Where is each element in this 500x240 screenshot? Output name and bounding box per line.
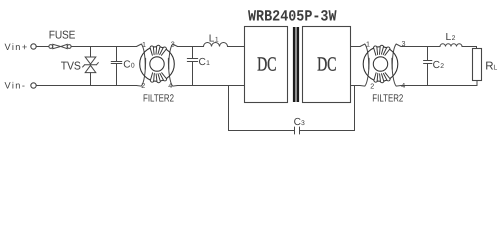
svg-text:FILTER2: FILTER2	[372, 94, 403, 105]
svg-text:1: 1	[206, 60, 210, 67]
inductor L1 label	[209, 33, 219, 44]
inductor L1	[204, 43, 228, 47]
wire lead pin3	[392, 44, 401, 69]
svg-text:3: 3	[171, 40, 175, 49]
svg-text:1: 1	[142, 40, 146, 49]
svg-text:DC: DC	[257, 54, 276, 76]
svg-text:Vin-: Vin-	[5, 81, 27, 91]
wire junction down to C3 (right)	[354, 86, 356, 131]
resistor RL label	[485, 61, 497, 73]
wire DC box output bottom to filter2	[351, 85, 361, 87]
svg-text:DC: DC	[317, 54, 336, 76]
svg-text:WRB2405P-3W: WRB2405P-3W	[248, 7, 337, 25]
resistor RL	[473, 49, 482, 81]
module U1 output block	[303, 27, 351, 103]
svg-text:1: 1	[366, 40, 370, 49]
svg-text:C: C	[294, 117, 301, 128]
svg-text:2: 2	[440, 63, 444, 70]
capacitor C1 label	[199, 57, 211, 68]
capacitor C3	[229, 127, 355, 134]
winding turns	[150, 45, 167, 83]
TVS diode D1	[83, 47, 99, 86]
svg-text:3: 3	[301, 120, 305, 127]
transformer T1 core bars	[293, 27, 296, 102]
winding turns	[374, 45, 391, 83]
wire filter2 pin4 to RL bottom	[401, 85, 477, 87]
svg-text:R: R	[485, 61, 493, 73]
wire lead pin1	[360, 44, 369, 69]
wire lead pin1	[137, 44, 146, 69]
filter2 pin labels	[366, 39, 406, 91]
svg-text:TVS: TVS	[61, 61, 81, 73]
filter1 pin labels	[141, 40, 175, 91]
capacitor C2	[424, 47, 432, 86]
capacitor C2 label	[433, 60, 445, 71]
svg-text:4: 4	[168, 81, 172, 90]
wire L1 to DC box	[228, 46, 245, 48]
wire lead pin2	[360, 58, 369, 86]
node Vin+ terminal	[31, 44, 36, 49]
svg-text:2: 2	[452, 35, 456, 42]
wire lead pin4	[392, 58, 401, 86]
wire DC box output top to filter2	[351, 46, 361, 48]
filter FILTER2 (output common-mode choke)	[360, 44, 401, 86]
capacitor C3 label	[294, 117, 305, 128]
wire L2 to RL	[462, 47, 477, 49]
svg-text:Vin+: Vin+	[5, 42, 29, 52]
wire fuse to filter1 (top rail)	[71, 46, 136, 48]
module U1 input block	[245, 27, 288, 103]
fuse F symbol	[49, 44, 71, 48]
wire filter1 pin4 to DC box (bottom)	[178, 85, 245, 87]
svg-text:L: L	[493, 65, 497, 72]
inductor L2	[440, 44, 462, 47]
wire Vin- to filter1 (bottom rail)	[36, 85, 136, 87]
svg-text:C: C	[123, 60, 130, 71]
node Vin- terminal	[31, 83, 36, 88]
toroid core	[363, 47, 398, 82]
filter FILTER2 (input common-mode choke)	[137, 44, 178, 86]
capacitor C0 label	[123, 60, 135, 71]
svg-text:0: 0	[131, 63, 135, 70]
wire filter2 pin3 to C2/L2	[401, 46, 440, 48]
svg-text:FILTER2: FILTER2	[143, 94, 174, 105]
wire RL bottom to rail	[476, 81, 478, 86]
svg-text:FUSE: FUSE	[49, 30, 76, 42]
svg-text:C: C	[199, 57, 206, 68]
inductor L2 label	[446, 32, 456, 43]
toroid core	[140, 47, 175, 82]
svg-text:2: 2	[370, 82, 374, 91]
wire junction down to C3 (left)	[228, 86, 230, 131]
svg-text:2: 2	[141, 81, 145, 90]
svg-text:L: L	[446, 32, 452, 43]
wire lead pin2	[137, 58, 146, 86]
wire filter1 pin3 to L1	[178, 46, 204, 48]
capacitor C0	[111, 47, 122, 86]
capacitor C1	[187, 47, 197, 86]
wire lead pin3	[169, 44, 178, 69]
wire lead pin4	[168, 58, 177, 86]
wire Vin+ to fuse	[36, 46, 49, 48]
svg-text:C: C	[433, 60, 440, 71]
